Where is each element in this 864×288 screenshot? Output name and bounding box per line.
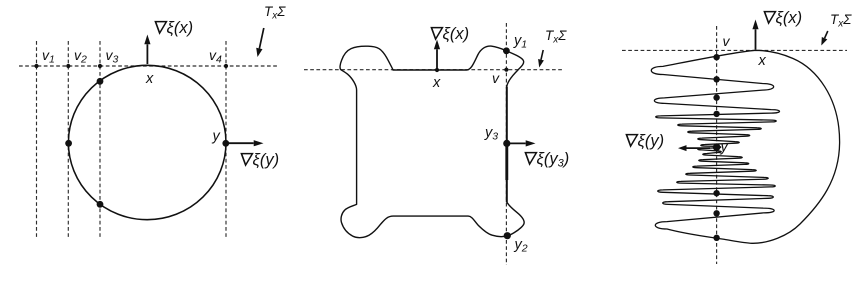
level line v2 (vertical dashed): [67, 41, 69, 237]
node: circle crosses v3 (upper): [97, 78, 104, 85]
node v4 on tangent line: [224, 64, 228, 68]
svg-text:ξ(y): ξ(y): [253, 151, 280, 169]
crossing node 6 on level line: [713, 210, 719, 216]
svg-text:y: y: [212, 129, 221, 145]
label gradient xi of y (right): [625, 135, 638, 147]
level line v3 (vertical dashed): [99, 41, 101, 237]
node v2 on tangent line: [66, 64, 70, 68]
svg-text:TxΣ: TxΣ: [545, 28, 567, 46]
svg-text:ξ(x): ξ(x): [776, 9, 803, 27]
svg-text:x: x: [432, 75, 441, 91]
crossing node 7 on level line: [713, 235, 719, 241]
svg-text:ξ(y3): ξ(y3): [537, 150, 570, 170]
curve Sigma: circle: [68, 65, 226, 219]
svg-text:x: x: [758, 53, 767, 69]
v node on level line: [713, 54, 719, 60]
level line v (middle figure, vertical dashed): [505, 23, 507, 265]
arrow gradient xi at y (right, pointing left): [687, 147, 711, 149]
svg-text:y: y: [720, 140, 729, 156]
label gradient xi of y3: [524, 153, 537, 165]
level line v4 (vertical dashed): [225, 41, 227, 237]
curve Sigma: square blob with corner bumps: [340, 46, 524, 238]
curve Sigma: oscillating blob: [651, 50, 839, 243]
arrow pointing at tangent line (middle): [541, 50, 543, 60]
svg-text:TxΣ: TxΣ: [830, 12, 852, 30]
node x on top edge: [435, 68, 439, 72]
tangent line T_x Sigma (right figure, horizontal dashed): [622, 49, 847, 51]
arrow pointing at tangent line (left): [259, 28, 263, 48]
svg-text:y2: y2: [514, 237, 528, 255]
svg-text:y3: y3: [484, 125, 498, 143]
svg-text:v3: v3: [106, 47, 119, 66]
label gradient xi of x (middle): [430, 28, 443, 39]
svg-text:ξ(x): ξ(x): [167, 19, 194, 37]
level line v1 (vertical dashed): [36, 41, 38, 237]
crossing node 5 on level line: [713, 190, 719, 196]
thick right edge of blob along level line: [506, 87, 508, 202]
crossing node 4 on level line: [713, 111, 719, 117]
svg-text:v: v: [723, 33, 731, 49]
svg-text:v4: v4: [209, 47, 222, 66]
arrow gradient xi at y3: [507, 142, 526, 144]
arrow gradient xi at y: [226, 142, 254, 144]
node v3 on tangent line: [98, 64, 102, 68]
crossing node 2 on level line: [713, 76, 719, 82]
svg-text:ξ(x): ξ(x): [443, 25, 470, 43]
node y on circle: [222, 140, 229, 147]
arrow gradient xi at x (right): [755, 29, 757, 49]
node: circle crosses v3 (lower): [97, 201, 104, 208]
svg-text:v1: v1: [42, 47, 55, 66]
tangent line T_x Sigma (left figure, horizontal dashed): [19, 65, 278, 67]
label gradient xi of y (left figure): [240, 154, 253, 166]
node y3: [503, 140, 510, 147]
tangent line T_x Sigma (middle figure, horizontal dashed): [304, 69, 563, 71]
node: circle tangent to v2: [65, 140, 72, 147]
label gradient xi of x (left figure): [154, 22, 167, 33]
level line v (right figure, vertical dashed): [716, 26, 718, 264]
svg-text:v: v: [492, 70, 500, 86]
arrow pointing at tangent line (right): [825, 31, 828, 38]
node y2: [504, 232, 511, 239]
node v1 on tangent line: [34, 64, 38, 68]
svg-text:v2: v2: [74, 47, 87, 66]
node y on level line: [713, 143, 721, 151]
svg-text:x: x: [145, 71, 154, 87]
svg-text:y1: y1: [513, 33, 527, 51]
label gradient xi of x (right): [763, 12, 776, 24]
arrow gradient xi at x: [146, 44, 148, 64]
node v (middle): [504, 68, 508, 72]
svg-text:TxΣ: TxΣ: [264, 4, 286, 22]
arrow gradient xi at x (middle): [436, 49, 438, 69]
svg-text:ξ(y): ξ(y): [638, 132, 665, 150]
node y1: [503, 47, 510, 54]
crossing node 3 on level line: [713, 94, 719, 100]
